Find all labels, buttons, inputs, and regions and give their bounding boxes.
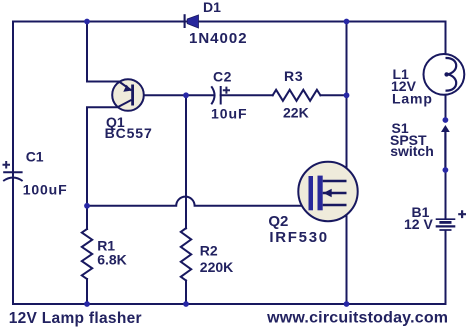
resistor R2 zigzag [181, 228, 191, 280]
wire base node down to R2 [185, 95, 187, 228]
node top rail / drain [344, 19, 350, 25]
wire Q1 collector branch [87, 107, 118, 229]
svg-text:12 V: 12 V [404, 216, 433, 232]
lamp L1 [424, 54, 465, 95]
transistor Q1 [112, 79, 144, 111]
wire gate node with hop [87, 197, 310, 206]
wire top rail [13, 21, 446, 23]
wire C2 to R3 [221, 94, 273, 96]
resistor R1 zigzag [82, 229, 92, 279]
svg-text:D1: D1 [203, 0, 221, 15]
wire R2 bottom [185, 281, 187, 305]
node top rail / Q1 emitter [84, 19, 90, 25]
capacitor C1 plates [3, 172, 22, 181]
svg-text:1N4002: 1N4002 [189, 30, 248, 47]
wire lamp to switch [445, 91, 447, 121]
battery B1 plates [436, 219, 456, 230]
switch S1 lever and arrow [441, 125, 450, 170]
wire right vertical lamp feed [445, 22, 447, 60]
node base C2 R2 junction [183, 92, 189, 98]
svg-text:12V Lamp flasher: 12V Lamp flasher [9, 310, 142, 327]
svg-text:Q2: Q2 [268, 213, 288, 230]
svg-text:switch: switch [390, 143, 434, 159]
svg-text:R3: R3 [284, 68, 304, 84]
node R1 bottom rail [84, 301, 90, 307]
node R3 drain junction [344, 92, 350, 98]
wire left vertical [12, 22, 14, 305]
resistor R3 zigzag [273, 90, 321, 101]
wire R1 bottom [86, 279, 88, 304]
wire R3 to drain node [320, 94, 346, 96]
node collector R1 gate junction [84, 203, 90, 209]
svg-text:6.8K: 6.8K [97, 252, 127, 268]
node switch bottom terminal [443, 167, 449, 173]
capacitor C2 plus sign [223, 87, 230, 94]
svg-text:C2: C2 [213, 69, 232, 85]
node switch top terminal [443, 117, 449, 123]
wire switch to battery [445, 170, 447, 218]
wire Q1 emitter branch [87, 22, 120, 82]
node drain bottom rail [344, 301, 350, 307]
wire bottom rail [13, 303, 446, 305]
svg-text:Lamp: Lamp [392, 91, 433, 107]
svg-text:22K: 22K [283, 105, 309, 121]
svg-text:220K: 220K [200, 259, 233, 275]
svg-text:IRF530: IRF530 [269, 229, 328, 246]
mosfet Q2 [298, 162, 357, 221]
svg-text:100uF: 100uF [23, 182, 68, 198]
diode D1 [185, 14, 199, 28]
battery B1 plus sign [458, 210, 466, 218]
svg-text:BC557: BC557 [105, 125, 153, 141]
capacitor C2 plates [211, 86, 220, 105]
node R2 bottom rail [183, 301, 189, 307]
svg-text:10uF: 10uF [211, 105, 247, 121]
svg-text:www.circuitstoday.com: www.circuitstoday.com [266, 310, 448, 327]
wire drain vertical [346, 22, 348, 305]
svg-text:C1: C1 [26, 149, 44, 165]
wire Q1 base to C2 [134, 94, 215, 96]
wire battery to bottom rail [445, 231, 447, 304]
capacitor C1 plus sign [3, 161, 11, 169]
svg-text:R2: R2 [200, 243, 218, 259]
